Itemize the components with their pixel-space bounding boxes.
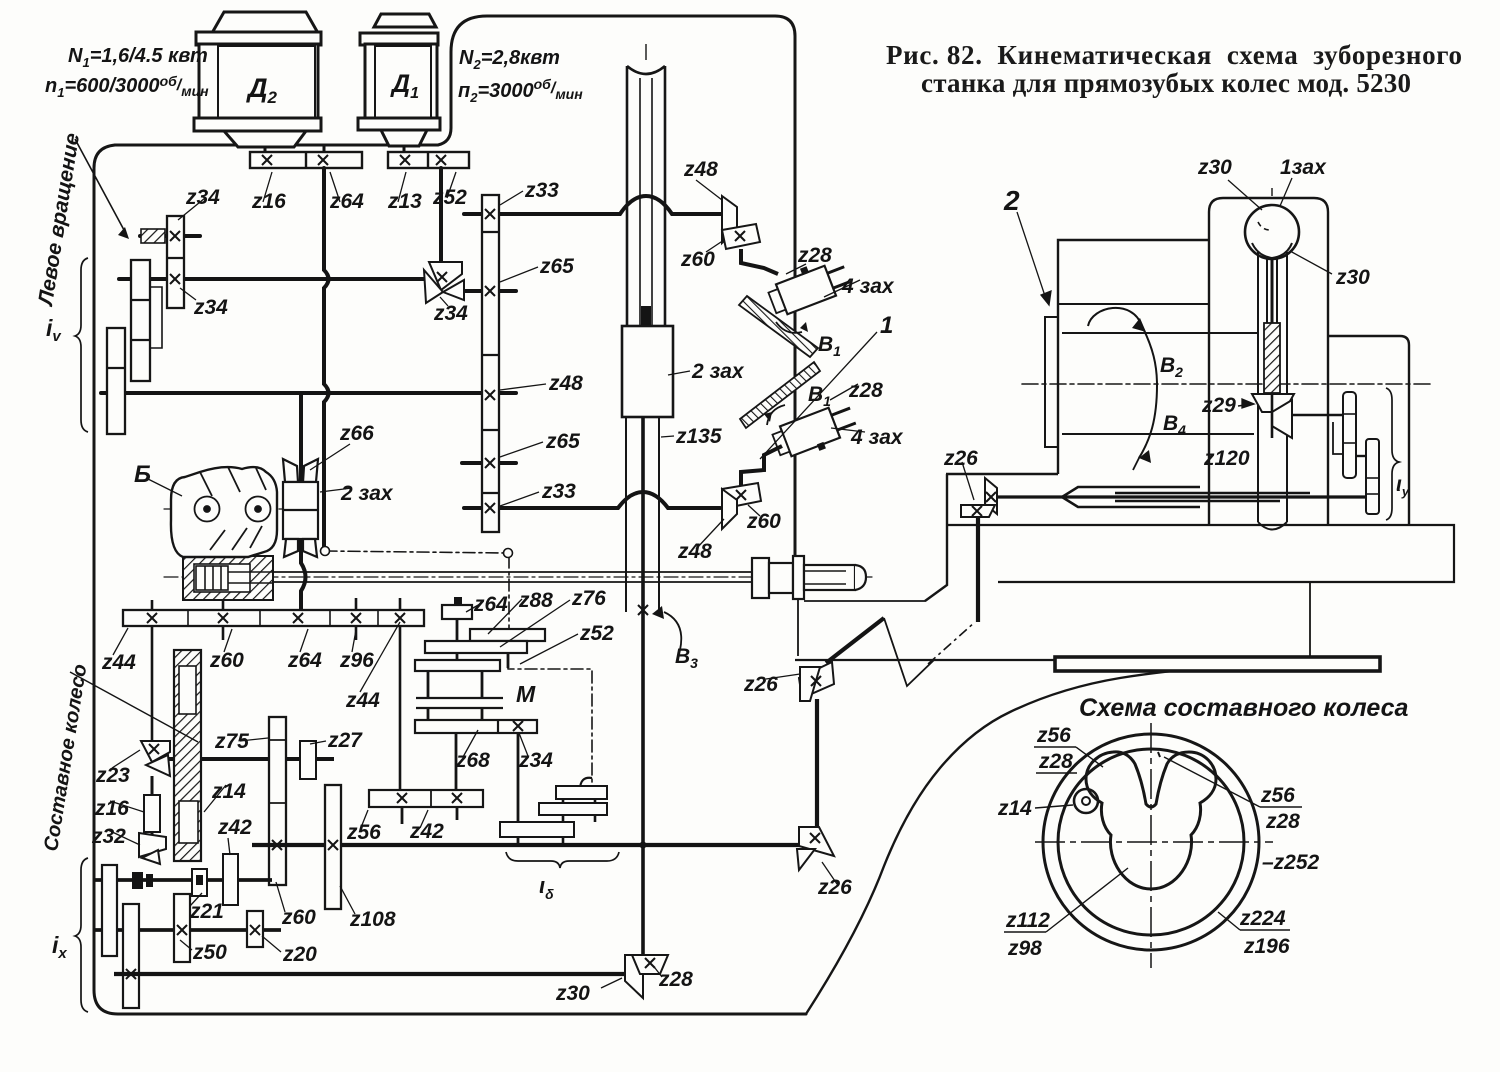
pulley bar shaft I (left)	[250, 152, 362, 168]
ix brace	[75, 858, 88, 1012]
motor D2	[194, 12, 321, 147]
iy gear 1	[1343, 392, 1356, 478]
svg-text:Рис. 82. Кинематическая схем: Рис. 82. Кинематическая схема зуборезног…	[886, 40, 1462, 70]
svg-text:z42: z42	[409, 820, 444, 843]
vertical shaft x=978	[976, 516, 980, 622]
z56/z42 gear bar	[402, 807, 457, 824]
svg-text:z56: z56	[1036, 724, 1071, 747]
svg-text:z48: z48	[677, 540, 712, 563]
z135 tube below	[626, 417, 659, 612]
change gear rail (shaft IV)	[152, 598, 400, 790]
svg-text:z14: z14	[997, 797, 1032, 820]
gear z20	[247, 911, 263, 947]
vertical shaft x=152 to z16/z32	[151, 776, 154, 858]
shaft z29 to iy gears	[1292, 414, 1344, 416]
svg-text:z21: z21	[189, 900, 224, 923]
lower bevel z48	[722, 489, 737, 529]
svg-text:z76: z76	[571, 587, 606, 610]
svg-text:z28: z28	[848, 379, 883, 402]
central wide hollow shaft	[627, 66, 665, 326]
svg-text:z88: z88	[518, 589, 553, 612]
composite wheel scheme crosshair	[1035, 723, 1273, 968]
worm housing hatched	[183, 556, 273, 600]
bevel z23	[141, 741, 170, 776]
vertical shaft from D1 pulley x=441	[439, 168, 443, 263]
svg-text:z30: z30	[555, 982, 590, 1005]
svg-text:z75: z75	[214, 730, 249, 753]
ball joints of change-gear linkage	[321, 547, 330, 556]
svg-text:z30: z30	[1197, 156, 1232, 179]
bevel z29	[1252, 394, 1294, 438]
shaft from lower block to z60	[741, 446, 782, 487]
lower inclined rack B1	[740, 362, 820, 428]
svg-text:z16: z16	[94, 797, 129, 820]
machine feed screw y=497	[997, 495, 1366, 498]
svg-text:z30: z30	[1335, 266, 1370, 289]
shaft y=214 with hump	[499, 196, 722, 214]
composite wheel side view (hatched)	[174, 650, 201, 861]
svg-text:z65: z65	[545, 430, 580, 453]
svg-text:2: 2	[1003, 185, 1020, 216]
dash-dot machine axis	[1022, 383, 1430, 385]
svg-text:z28: z28	[797, 244, 832, 267]
feed shaft B y=845	[252, 843, 816, 847]
lower z26 bevel upper pair	[799, 662, 834, 701]
lead screw double line	[250, 572, 752, 582]
svg-text:z112: z112	[1005, 909, 1050, 932]
bevel pair z34 on shaft II	[424, 262, 464, 303]
B3 rotation arrow	[664, 612, 681, 650]
cutter head circle z30/1zax	[1245, 205, 1299, 259]
svg-text:z120: z120	[1203, 447, 1250, 470]
block B (bracket)	[171, 467, 277, 557]
svg-text:z64: z64	[329, 190, 364, 213]
svg-text:станка для прямозубых колес мо: станка для прямозубых колес мод. 5230	[921, 68, 1411, 98]
shaft C y=880	[94, 878, 272, 882]
gearbox frame	[115, 16, 795, 556]
worm block 2 zax on central shaft	[641, 306, 651, 328]
svg-text:z66: z66	[339, 422, 374, 445]
svg-text:2 зах: 2 зах	[340, 482, 394, 505]
svg-text:N1=1,6/4.5 квт: N1=1,6/4.5 квт	[68, 45, 208, 70]
svg-text:М: М	[516, 681, 536, 707]
upper 4 zax worm block	[765, 254, 853, 318]
wheel outer circle z252	[1043, 734, 1259, 950]
five-gear column z33-z65-z48-z65-z33	[482, 195, 499, 532]
i-delta small cluster	[563, 786, 595, 845]
shaft E y=974	[114, 972, 630, 976]
svg-text:z48: z48	[683, 158, 718, 181]
svg-text:z44: z44	[345, 689, 380, 712]
svg-text:z28: z28	[1265, 810, 1300, 833]
worm z16	[144, 795, 160, 832]
bottom bevel z30/z28	[625, 955, 668, 998]
shaft D y=930	[94, 928, 281, 932]
svg-text:z33: z33	[524, 179, 559, 202]
svg-text:z13: z13	[387, 190, 422, 213]
junction central shaft / feed shaft	[640, 842, 647, 849]
gear z50	[174, 894, 190, 962]
shaft III y=393	[101, 391, 516, 395]
lower 4 zax worm block	[771, 401, 861, 465]
clutch blocks	[132, 872, 143, 889]
svg-text:z16: z16	[251, 190, 286, 213]
iy brace	[1386, 388, 1399, 520]
svg-text:z196: z196	[1243, 935, 1290, 958]
svg-text:z34: z34	[185, 186, 220, 209]
bevel z32	[139, 833, 166, 864]
svg-text:z29: z29	[1201, 394, 1236, 417]
leaders lower	[108, 178, 1332, 988]
svg-text:1зах: 1зах	[1280, 156, 1327, 179]
iV gear block B	[107, 328, 125, 434]
svg-text:z44: z44	[101, 651, 136, 674]
svg-text:z65: z65	[539, 255, 574, 278]
i-delta brace	[506, 852, 619, 868]
lower gear z60 angled	[722, 483, 761, 508]
vertical feed shaft x=817	[815, 699, 819, 832]
upper z26 bevel at machine	[961, 478, 997, 517]
B2/B4 rotation arc	[1088, 308, 1157, 458]
break zigzag	[884, 618, 934, 686]
dash-dot axis block B	[164, 508, 284, 510]
svg-text:z28: z28	[658, 968, 693, 991]
fork on screw	[1062, 487, 1310, 507]
svg-text:z98: z98	[1007, 937, 1042, 960]
worm gear 2 zax on vertical shaft	[283, 459, 318, 557]
svg-text:z26: z26	[743, 673, 778, 696]
shaft II bevel output stub	[458, 289, 516, 293]
svg-text:z224: z224	[1239, 907, 1286, 930]
svg-text:z50: z50	[192, 941, 227, 964]
svg-text:z34: z34	[433, 302, 468, 325]
svg-text:z108: z108	[349, 908, 396, 931]
machine base band	[1055, 657, 1380, 671]
bottom-left gear R1	[102, 865, 117, 956]
svg-text:z60: z60	[281, 906, 316, 929]
lower z26 bevel lower pair	[797, 827, 834, 870]
dash-dot screw axis	[164, 576, 872, 578]
svg-text:z34: z34	[518, 749, 553, 772]
shaft II y=279	[119, 277, 428, 281]
svg-text:4 зах: 4 зах	[850, 426, 904, 449]
machine bed	[925, 474, 1454, 601]
svg-text:z64: z64	[287, 649, 322, 672]
svg-text:1: 1	[880, 312, 893, 339]
bottom-left gear R2	[123, 904, 139, 1008]
motor shafts to pulleys	[265, 146, 404, 153]
wheel inner circle z224/z196	[1058, 749, 1244, 935]
svg-text:z20: z20	[282, 943, 317, 966]
svg-text:z60: z60	[680, 248, 715, 271]
gear labels top row	[134, 158, 904, 671]
upper inclined rack B1	[739, 296, 818, 357]
vertical worm shaft x=301	[301, 393, 306, 614]
svg-text:z60: z60	[746, 510, 781, 533]
screw coupling	[752, 556, 866, 599]
svg-text:z96: z96	[339, 649, 374, 672]
lower area labels	[91, 156, 1410, 1005]
central inner shaft down to bottom bevel	[641, 417, 645, 957]
leader arrow	[75, 139, 124, 230]
gear block fork link	[150, 287, 162, 348]
gear z34 upper left	[167, 216, 184, 308]
svg-text:z52: z52	[579, 622, 614, 645]
headstock upper block	[1045, 240, 1258, 474]
thick diagonal to break	[826, 618, 884, 663]
column stubs y=463	[462, 461, 516, 465]
machine bed bottom curve	[806, 659, 1374, 1014]
svg-text:2 зах: 2 зах	[691, 360, 745, 383]
gear z27	[300, 741, 316, 779]
svg-text:z135: z135	[675, 425, 722, 448]
iy gear 2	[1366, 439, 1379, 514]
svg-text:z42: z42	[217, 816, 252, 839]
shaft y=759	[150, 757, 334, 761]
iV brace	[75, 258, 88, 432]
svg-text:z34: z34	[193, 296, 228, 319]
spindle verticals	[1258, 252, 1287, 522]
apron outline	[795, 585, 1060, 660]
svg-text:z56: z56	[346, 821, 381, 844]
column	[1209, 198, 1409, 524]
short shaft y=236	[140, 234, 200, 238]
pin z14	[1074, 789, 1098, 813]
svg-text:z26: z26	[943, 447, 978, 470]
svg-text:z27: z27	[327, 729, 363, 752]
svg-text:Схема составного колеса: Схема составного колеса	[1079, 694, 1408, 722]
svg-text:z28: z28	[1038, 750, 1073, 773]
gear z42 lower-left	[223, 854, 238, 905]
pulley bar shaft I (right)	[388, 152, 469, 168]
upper gear z60 angled	[722, 224, 760, 249]
svg-text:z33: z33	[541, 480, 576, 503]
svg-text:z14: z14	[211, 780, 246, 803]
iV gear block A	[131, 260, 150, 381]
svg-text:z68: z68	[455, 749, 490, 772]
svg-text:z48: z48	[548, 372, 583, 395]
shaft y=508 with hump	[464, 492, 720, 508]
leader lines top	[146, 172, 877, 549]
kidney plate z56/z28	[1086, 752, 1216, 889]
svg-text:z60: z60	[209, 649, 244, 672]
link lever dash-dot path	[325, 551, 592, 788]
shaft to upper 4-start worm	[741, 249, 778, 274]
vertical shaft from D2 pulley x=324	[324, 168, 329, 551]
svg-text:–z252: –z252	[1262, 851, 1320, 874]
svg-text:4 зах: 4 зах	[841, 275, 895, 298]
motor D1	[358, 14, 440, 146]
tall gear z75/z60	[269, 717, 286, 885]
M group change-gear stack	[428, 619, 518, 845]
upper bevel z48	[722, 196, 737, 243]
hatched stub gear left of z34	[141, 229, 165, 243]
svg-text:z56: z56	[1260, 784, 1295, 807]
gear z108	[325, 785, 341, 909]
svg-text:Б: Б	[134, 461, 151, 488]
gear z21	[192, 869, 207, 896]
